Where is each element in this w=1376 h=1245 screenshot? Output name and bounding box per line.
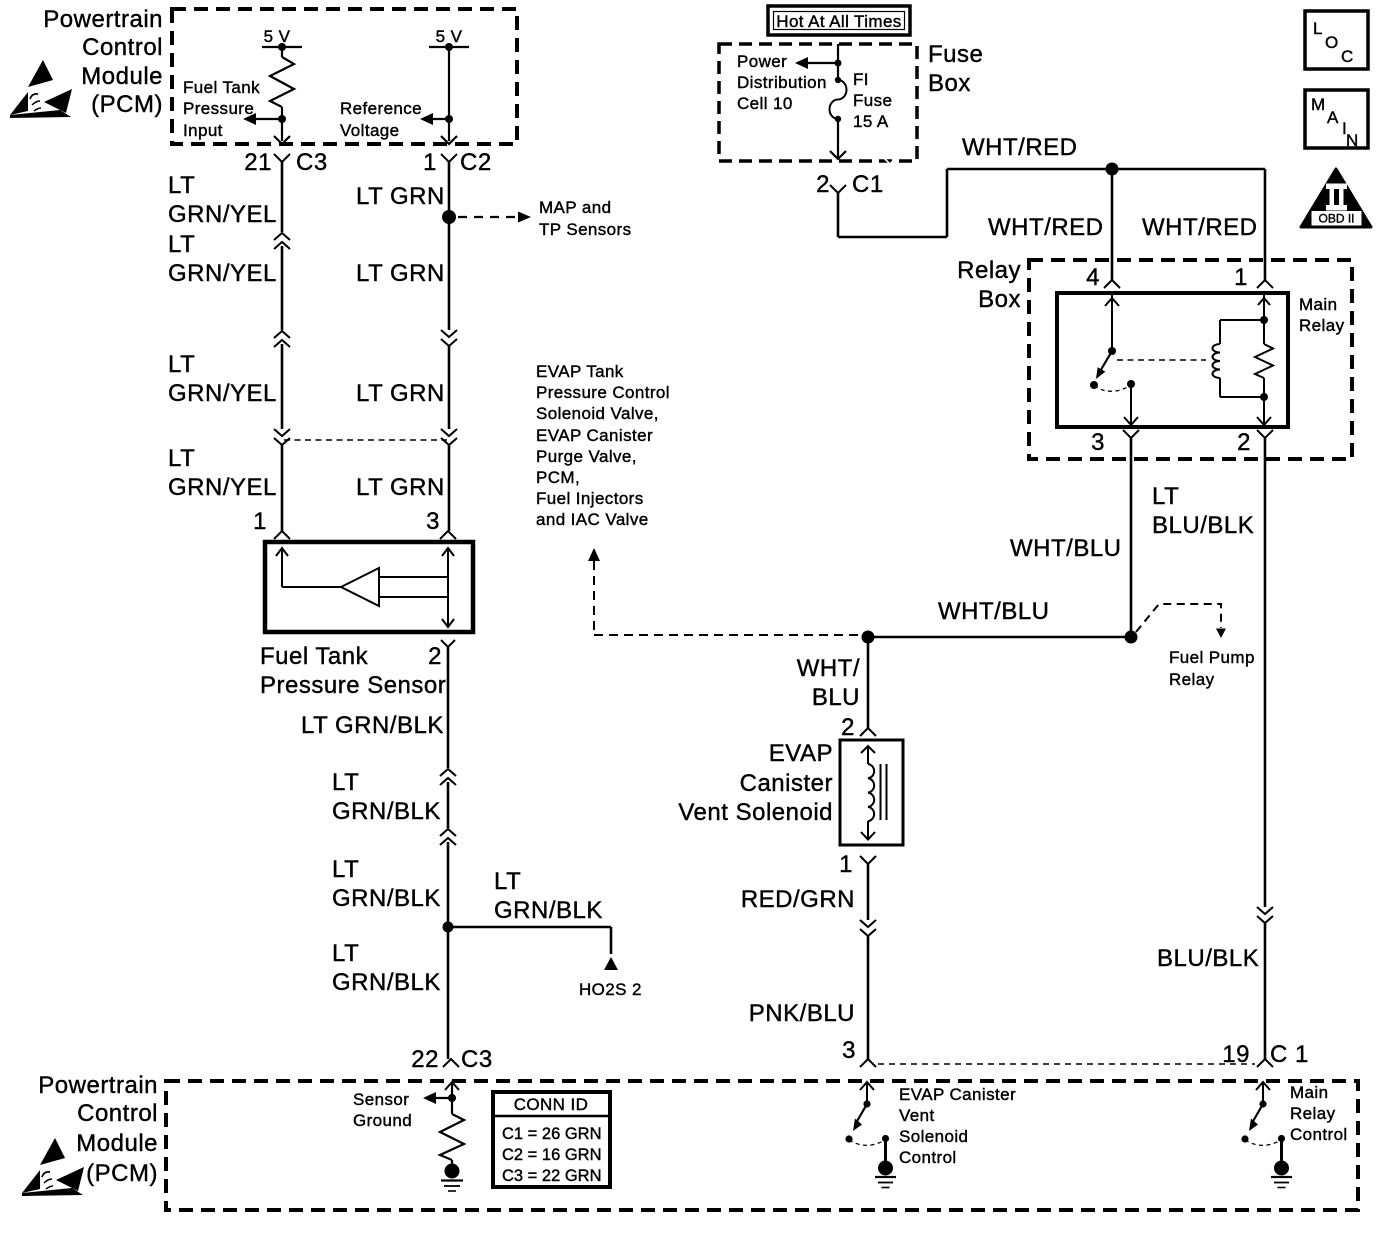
svg-text:(PCM): (PCM) [86,1160,158,1187]
svg-text:Input: Input [183,121,223,140]
wire LT GRN/BLK (sensor pin2 to pin22 C3) [440,647,456,1059]
pin 2 solenoid [841,714,876,741]
svg-text:21: 21 [244,149,272,176]
fuse FI 15A [830,77,847,159]
Fuse Box dashed box [719,44,917,161]
svg-text:C: C [1341,47,1354,66]
pin 4 main relay [1086,264,1120,291]
label BLU/BLK [1157,945,1259,972]
relay switch [1090,295,1138,425]
solenoid coil interior [861,746,887,840]
svg-text:1: 1 [1234,264,1248,291]
label EVAP Canister Vent Solenoid [678,740,833,826]
svg-text:C3 = 22 GRN: C3 = 22 GRN [502,1167,602,1185]
svg-text:PCM,: PCM, [536,468,580,487]
wire reference voltage [420,47,457,144]
node to MAP and TP sensors [442,198,632,239]
svg-text:GRN/BLK: GRN/BLK [494,897,603,924]
svg-text:Fuel Injectors: Fuel Injectors [536,489,644,508]
svg-text:BLU/BLK: BLU/BLK [1157,945,1259,972]
svg-text:Control: Control [82,34,163,61]
EVAP canister vent solenoid control switch [845,1082,896,1188]
svg-text:Module: Module [76,1130,158,1157]
arrow + node Fuel Tank Pressure Input [243,113,290,144]
svg-text:N: N [1346,131,1359,150]
label EVAP devices list [536,362,670,529]
svg-text:Vent: Vent [899,1106,935,1125]
pin 1 sensor [253,508,290,539]
PCM bottom dashed box [166,1081,1358,1210]
svg-text:FI: FI [853,70,869,89]
svg-text:Powertrain: Powertrain [43,6,163,33]
label Fuel Pump Relay [1169,648,1255,689]
svg-text:LT: LT [494,868,521,895]
svg-text:4: 4 [1086,264,1100,291]
resistor sensor ground [440,1114,464,1165]
pin 1 C2 [423,149,492,176]
svg-text:WHT/RED: WHT/RED [1142,214,1257,241]
svg-text:C1 = 26 GRN: C1 = 26 GRN [502,1125,602,1143]
svg-text:1: 1 [423,149,437,176]
svg-text:EVAP Canister: EVAP Canister [899,1085,1016,1104]
main relay control switch [1241,1082,1292,1188]
5V supply left [262,27,302,51]
svg-text:Fuse: Fuse [853,91,892,110]
svg-text:Box: Box [978,286,1021,313]
label RED/GRN [741,886,855,913]
label Power Distribution Cell 10 [737,52,827,113]
svg-text:LT GRN/BLK: LT GRN/BLK [301,712,444,739]
svg-text:GRN/YEL: GRN/YEL [168,380,277,407]
label WHT/BLU vertical [1010,535,1122,562]
sensor ground wire + arrow [423,1082,459,1114]
MAIN symbol [1305,90,1368,150]
svg-text:RED/GRN: RED/GRN [741,886,855,913]
svg-text:TP Sensors: TP Sensors [539,220,632,239]
pin 22 C3 [411,1046,492,1073]
svg-text:Power: Power [737,52,787,71]
svg-text:Control: Control [1290,1125,1348,1144]
svg-text:EVAP Canister: EVAP Canister [536,426,653,445]
svg-text:Fuel Tank: Fuel Tank [183,78,260,97]
svg-text:(PCM): (PCM) [91,91,163,118]
svg-text:2: 2 [428,643,442,670]
wire WHT/BLU horizontal [862,631,1132,644]
svg-text:2: 2 [816,171,830,198]
svg-text:Pressure: Pressure [183,99,254,118]
svg-text:Ground: Ground [353,1111,412,1130]
svg-text:Sensor: Sensor [353,1090,409,1109]
svg-text:3: 3 [1091,429,1105,456]
svg-text:WHT/RED: WHT/RED [988,214,1103,241]
5V supply right [429,27,469,51]
svg-text:BLU/BLK: BLU/BLK [1152,512,1254,539]
ESD symbol top-left [10,60,72,118]
svg-text:Purge Valve,: Purge Valve, [536,447,637,466]
svg-text:LT: LT [168,351,195,378]
sensor label + pin 2 [260,640,455,699]
wire LT GRN (pin1 C2 to sensor pin3) [441,162,457,531]
label Fuse Box [928,41,983,97]
svg-text:LT GRN: LT GRN [356,183,445,210]
EVAP canister vent solenoid box [840,740,903,845]
svg-text:HO2S 2: HO2S 2 [579,980,642,999]
label EVAP canister vent solenoid control [899,1085,1016,1167]
svg-text:Hot At All Times: Hot At All Times [776,12,901,31]
svg-text:3: 3 [842,1037,856,1064]
PCM top-left label [43,6,163,118]
label Fuel Tank Pressure Input [183,78,260,140]
svg-text:Pressure Sensor: Pressure Sensor [260,672,446,699]
svg-text:22: 22 [411,1046,439,1073]
label main relay control [1290,1083,1348,1144]
svg-text:WHT/RED: WHT/RED [962,134,1077,161]
svg-text:LT GRN: LT GRN [356,474,445,501]
inline connector dashed line bottom [878,1063,1255,1065]
svg-text:Fuel Tank: Fuel Tank [260,643,369,670]
pin 1 solenoid [839,851,876,878]
pin 2 C1 [816,171,884,198]
svg-text:3: 3 [426,508,440,535]
label Main Relay [1299,295,1345,335]
PCM top dashed box [172,9,517,144]
relay coil [1213,320,1221,397]
svg-text:C1: C1 [852,171,884,198]
svg-text:5 V: 5 V [264,27,291,46]
Hot At All Times box [768,6,910,35]
PCM bottom-left label [38,1072,158,1187]
svg-text:2: 2 [841,714,855,741]
pin 3 main relay [1091,429,1139,456]
wire + node power distribution [795,44,842,80]
svg-text:WHT/BLU: WHT/BLU [1010,535,1122,562]
svg-text:LT: LT [332,940,359,967]
dashed tap to EVAP devices [588,548,860,635]
svg-text:Solenoid Valve,: Solenoid Valve, [536,404,659,423]
Relay Box dashed box [1029,260,1352,459]
labels WHT/RED [962,134,1257,241]
wire relay pin3 to WHT/BLU node [1125,438,1138,644]
svg-text:LT: LT [168,231,195,258]
svg-text:O: O [1325,33,1339,52]
wire LT GRN/YEL (pin21 to sensor pin1) [274,162,290,531]
wire solenoid pin1 to PCM pin 3 [860,864,876,1059]
svg-text:PNK/BLU: PNK/BLU [749,1000,855,1027]
pin 21 C3 [244,149,327,176]
svg-text:C 1: C 1 [1270,1041,1309,1068]
svg-text:Relay: Relay [1299,316,1345,335]
svg-text:Reference: Reference [340,99,422,118]
svg-text:GRN/BLK: GRN/BLK [332,798,441,825]
svg-text:Fuse: Fuse [928,41,983,68]
svg-text:C3: C3 [461,1046,493,1073]
svg-text:and IAC Valve: and IAC Valve [536,510,649,529]
svg-text:Vent Solenoid: Vent Solenoid [678,799,833,826]
svg-text:LT: LT [1152,483,1179,510]
svg-text:Control: Control [77,1100,158,1127]
svg-text:LT: LT [332,769,359,796]
wire relay pin2 to PCM pin 19 [1257,438,1273,1059]
white notch on fuse box border [884,158,896,164]
svg-text:Main: Main [1299,295,1337,314]
svg-text:GRN/BLK: GRN/BLK [332,885,441,912]
dashed tap to fuel pump relay [1136,604,1226,638]
sensor interior amplifier [276,548,454,627]
ESD symbol bottom-left [22,1138,84,1196]
Fuel Tank Pressure Sensor box [265,542,473,632]
svg-text:Solenoid: Solenoid [899,1127,968,1146]
svg-text:EVAP: EVAP [769,740,833,767]
resistor fuel tank pressure pull-up [270,47,294,141]
svg-text:LT: LT [168,172,195,199]
svg-text:OBD II: OBD II [1318,212,1354,226]
svg-text:LT GRN: LT GRN [356,380,445,407]
svg-text:C3: C3 [296,149,328,176]
svg-text:Main: Main [1290,1083,1328,1102]
svg-text:1: 1 [253,508,267,535]
svg-text:2: 2 [1237,429,1251,456]
labels LT GRN [356,183,445,501]
svg-text:GRN/YEL: GRN/YEL [168,474,277,501]
svg-text:L: L [1313,19,1323,38]
svg-text:BLU: BLU [812,684,860,711]
svg-text:GRN/BLK: GRN/BLK [332,969,441,996]
svg-text:LT GRN: LT GRN [356,260,445,287]
pin 1 main relay [1234,264,1273,291]
svg-text:1: 1 [839,851,853,878]
svg-text:M: M [1311,95,1326,114]
pin 2 main relay [1237,429,1273,456]
svg-text:Control: Control [899,1148,957,1167]
svg-text:Voltage: Voltage [340,121,400,140]
pin 3 solenoid control [842,1037,876,1067]
label PNK/BLU [749,1000,855,1027]
label LT GRN/BLK branch [494,868,603,924]
svg-text:MAP and: MAP and [539,198,611,217]
svg-text:A: A [1327,108,1339,127]
svg-text:LT: LT [168,445,195,472]
label Sensor Ground [353,1090,412,1130]
label WHT/BLU horizontal [938,598,1050,625]
svg-text:C2 = 16 GRN: C2 = 16 GRN [502,1146,602,1164]
svg-text:Fuel Pump: Fuel Pump [1169,648,1255,667]
labels LT GRN/BLK column [301,712,444,996]
inline connector dashed line [284,439,447,441]
label FI Fuse 15 A [853,70,892,131]
svg-text:WHT/: WHT/ [797,655,860,682]
svg-text:WHT/BLU: WHT/BLU [938,598,1050,625]
svg-text:EVAP Tank: EVAP Tank [536,362,624,381]
svg-text:Relay: Relay [1169,670,1215,689]
svg-text:C2: C2 [460,149,492,176]
pin 3 sensor [426,508,456,539]
node + branch to HO2S 2 [443,922,642,1000]
label Reference Voltage [340,99,422,140]
LOC symbol [1305,11,1368,69]
label WHT/BLU two-line [797,655,860,711]
svg-text:Module: Module [81,63,163,90]
pin 19 C1 [1222,1041,1309,1068]
wire WHT/BLU down to solenoid pin 2 [867,637,870,728]
svg-text:Cell 10: Cell 10 [737,94,793,113]
svg-text:Relay: Relay [1290,1104,1336,1123]
svg-text:Relay: Relay [957,257,1021,284]
CONN ID table [493,1092,610,1187]
svg-text:LT: LT [332,856,359,883]
svg-text:Pressure Control: Pressure Control [536,383,670,402]
svg-text:GRN/YEL: GRN/YEL [168,201,277,228]
svg-text:Canister: Canister [740,770,833,797]
svg-text:CONN ID: CONN ID [514,1095,589,1114]
wire WHT/RED from fuse to relay [838,163,1265,281]
svg-text:Box: Box [928,70,971,97]
svg-text:GRN/YEL: GRN/YEL [168,260,277,287]
label Relay Box [957,257,1021,313]
relay mechanical dashed link [1117,359,1206,361]
Main Relay box [1057,293,1288,427]
label LT BLU/BLK [1152,483,1254,539]
svg-text:Distribution: Distribution [737,73,827,92]
ground symbol sensor ground [441,1164,463,1192]
relay resistor [1220,295,1273,425]
svg-text:15 A: 15 A [853,112,889,131]
svg-text:Powertrain: Powertrain [38,1072,158,1099]
labels LT GRN/YEL [168,172,277,501]
OBD II symbol [1301,169,1371,227]
